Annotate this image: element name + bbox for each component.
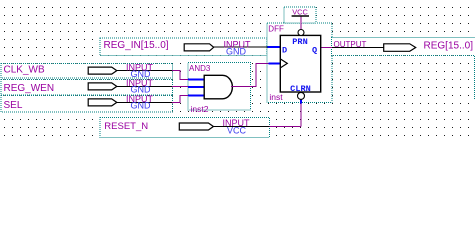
label PRN — [292, 37, 307, 47]
wire REG_IN to D input (selected blue segment) — [268, 46, 281, 48]
label RESET_N — [104, 121, 148, 132]
label AND3 — [189, 64, 211, 73]
svg-text:CLK_WB: CLK_WB — [4, 65, 45, 76]
label VCC — [292, 8, 308, 17]
svg-text:DFF: DFF — [268, 24, 284, 33]
label CLK_WB — [4, 65, 45, 76]
svg-text:CLRN: CLRN — [290, 84, 311, 94]
svg-text:VCC: VCC — [292, 8, 308, 17]
wire VCC to PRN bubble (purple) — [300, 17, 302, 30]
label REG[15..0] — [424, 41, 474, 52]
wire Q output to output pin (black segment) — [332, 46, 384, 48]
selection box around VCC symbol — [284, 7, 316, 23]
svg-text:GND: GND — [131, 101, 152, 111]
wire CLRN bubble stub (selected blue) — [300, 100, 302, 104]
wire AND3 input stub 1 (blue) — [188, 78, 204, 80]
svg-text:Q: Q — [312, 45, 317, 55]
selection box around input pin RESET_N — [100, 118, 270, 138]
wire REG_IN pin to D input (black segment) — [214, 46, 268, 48]
VCC power symbol — [292, 15, 309, 17]
wire AND3 input stub 2 (blue) — [188, 86, 204, 88]
output pin symbol REG[15..0] — [384, 44, 416, 52]
wire SEL pin (black segment) — [117, 101, 172, 103]
label DFF — [268, 24, 284, 33]
label Q — [312, 45, 317, 55]
label INPUT/GND of CLK_WB pin — [126, 62, 154, 78]
selection edge at right border — [474, 56, 475, 100]
svg-text:AND3: AND3 — [189, 64, 211, 73]
label SEL — [4, 100, 23, 111]
selection box around input pin SEL — [1, 95, 173, 112]
label REG_WEN — [4, 83, 55, 94]
svg-text:OUTPUT: OUTPUT — [334, 40, 367, 49]
label inst2 — [191, 104, 209, 114]
wire RESET_N horizontal (purple segment) — [270, 125, 302, 127]
wire Q output (purple segment) — [321, 46, 332, 48]
PRN bubble — [298, 30, 304, 36]
svg-text:inst2: inst2 — [191, 104, 209, 114]
wire AND3 input stub 3 (blue) — [188, 94, 204, 96]
input pin symbol RESET_N — [179, 123, 213, 130]
selection box around output pin REG — [332, 37, 475, 55]
selection box around flip-flop inst — [267, 23, 332, 103]
input pin symbol CLK_WB — [88, 67, 117, 74]
svg-text:GND: GND — [226, 46, 247, 56]
svg-text:RESET_N: RESET_N — [104, 121, 148, 132]
label INPUT/GND of REG_IN pin — [224, 39, 252, 56]
label D — [282, 45, 287, 55]
wire CLK_WB elbow (purple segments) — [172, 71, 188, 80]
input pin symbol SEL — [88, 99, 117, 106]
label INPUT/VCC of RESET_N pin — [223, 118, 251, 135]
svg-text:REG_IN[15..0]: REG_IN[15..0] — [104, 40, 169, 51]
svg-text:REG[15..0]: REG[15..0] — [424, 41, 474, 52]
CLRN bubble — [298, 92, 305, 99]
wire SEL elbow (purple segments) — [172, 95, 188, 102]
label inst — [269, 92, 283, 102]
svg-text:SEL: SEL — [4, 100, 23, 111]
selection box around input pin CLK_WB — [1, 63, 173, 78]
wire CLK_WB pin (black segment) — [117, 70, 172, 72]
svg-text:GND: GND — [131, 85, 152, 95]
svg-text:REG_WEN: REG_WEN — [4, 83, 55, 94]
D flip-flop DFF body — [280, 35, 320, 92]
label REG_IN[15..0] — [104, 40, 169, 51]
label INPUT/GND of REG_WEN pin — [126, 78, 154, 94]
wire RESET_N pin horizontal (black segment) — [213, 125, 269, 127]
wire REG_WEN pin (black segment) — [117, 86, 172, 88]
wire AND3 output stub (purple) — [231, 86, 233, 88]
svg-text:VCC: VCC — [227, 125, 247, 135]
clock wedge of flip-flop — [280, 59, 287, 68]
input pin symbol REG_WEN — [88, 83, 117, 90]
selection box around input pin REG_WEN — [1, 80, 173, 96]
wire REG_WEN elbow (purple segments) — [172, 86, 188, 88]
selection box around input pin REG_IN — [100, 38, 267, 56]
label CLRN — [290, 84, 311, 94]
AND gate AND3 — [204, 75, 232, 99]
selection box around gate AND3 — [188, 63, 251, 110]
input pin symbol REG_IN[15..0] — [184, 44, 214, 51]
wire AND3 output to clock (purple elbow) — [233, 63, 269, 86]
label OUTPUT — [334, 40, 367, 49]
svg-text:D: D — [282, 45, 287, 55]
wire CLRN down to RESET_N net (purple) — [300, 103, 302, 126]
wire clock input stub (blue) — [268, 62, 280, 64]
label INPUT/GND of SEL pin — [126, 94, 154, 110]
svg-text:PRN: PRN — [292, 37, 307, 47]
svg-text:inst: inst — [269, 92, 283, 102]
